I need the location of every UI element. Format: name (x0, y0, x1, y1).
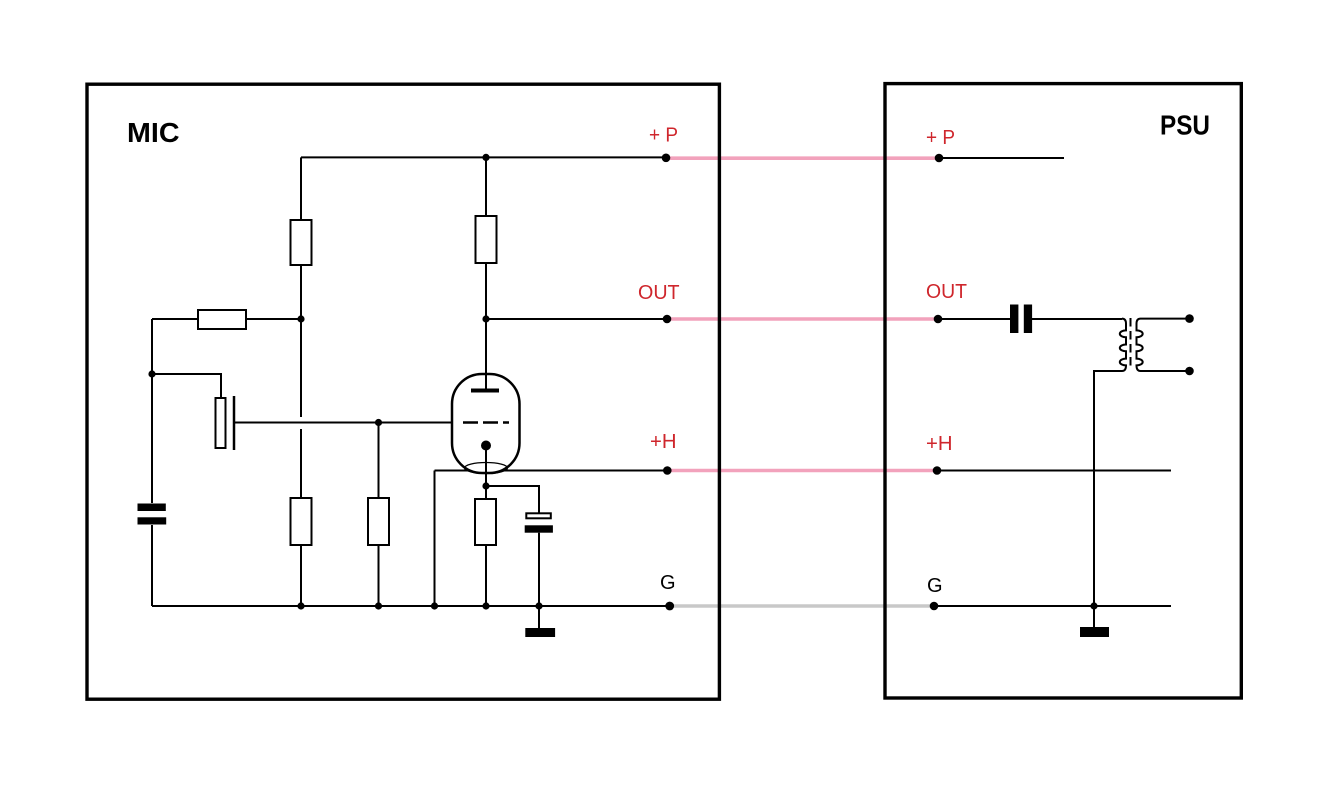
wire top rail y=157 (301, 156, 666, 158)
wire R3 right to node A (246, 318, 301, 320)
resistor R6 (cathode) (475, 499, 496, 545)
terminal G MIC (665, 602, 674, 611)
svg-text:OUT: OUT (926, 281, 967, 303)
node G5 junction dot (538,606) (535, 602, 542, 609)
node G2 junction dot (378.5,606) (375, 602, 382, 609)
capacitor C2 right plate (1024, 305, 1032, 334)
transformer T1 secondary winding (1137, 319, 1143, 371)
triode V1 base ellipse (465, 463, 508, 474)
wire +P stub PSU (939, 157, 1064, 159)
wire heater +H rail (435, 470, 668, 472)
resistor R3 (horizontal grid resistor) (198, 310, 246, 329)
wire left corner to R3 (152, 318, 198, 320)
terminal +P PSU (935, 154, 944, 163)
svg-text:MIC: MIC (127, 117, 180, 148)
capacitor C3 negative plate (525, 525, 553, 532)
wire secondary bottom (1141, 370, 1190, 372)
terminal +P MIC (662, 154, 671, 163)
node C junction dot (378.5,422.5) (375, 419, 382, 426)
node E junction dot (486,319) (482, 315, 489, 322)
capsule K1 movable plate (hollow) (216, 398, 226, 448)
wire G link (gray) MIC to PSU (670, 604, 932, 608)
node G1 junction dot (301,606) (297, 602, 304, 609)
wire R5 bottom to ground rail (378, 545, 380, 606)
wire +H rail PSU (937, 470, 1171, 472)
node secondary top dot (1185, 314, 1194, 323)
transformer T1 primary winding (1120, 319, 1126, 371)
wire R2 bottom to OUT node (485, 263, 487, 319)
svg-text:+ P: + P (926, 127, 955, 149)
wire cathode lead (485, 446, 487, 487)
wire C3 to ground rail (538, 533, 540, 606)
wire grid line from capsule to tube (235, 422, 452, 424)
capacitor C1 bottom plate (138, 517, 167, 524)
terminal +H MIC (663, 466, 672, 475)
triode V1 cathode dot (481, 441, 491, 451)
triode V1 anode bar (471, 389, 499, 393)
terminal +H PSU (933, 466, 942, 475)
wire node B to capsule top (152, 374, 221, 398)
triode V1 grid (dashed) (463, 421, 509, 424)
wire continues below gap to R4 (300, 429, 302, 499)
wire R4 bottom to ground rail (300, 545, 302, 606)
wire +P link (pink) MIC to PSU (670, 156, 937, 160)
svg-text:OUT: OUT (638, 282, 680, 304)
wire C1 bottom to ground rail (151, 525, 153, 606)
wire ground rail MIC (152, 605, 669, 607)
resistor R5 (grid leak) (368, 498, 389, 545)
MIC enclosure box (87, 84, 719, 699)
wire from top rail down to R1 (300, 157, 302, 221)
capacitor C2 left plate (1010, 305, 1018, 334)
ground symbol MIC (538, 606, 540, 628)
capsule K1 back plate (233, 396, 236, 450)
wire OUT link (pink) MIC to PSU (670, 317, 936, 321)
node G4 junction dot (486,606) (482, 602, 489, 609)
wire cathode node to C3 (486, 486, 539, 513)
wire heater return column (434, 471, 436, 607)
node A junction dot (301,319) (297, 315, 304, 322)
ground symbol PSU (1093, 606, 1095, 627)
wire secondary top (1141, 318, 1190, 320)
wire primary bottom to ground column (1094, 371, 1122, 606)
resistor R4 (lower, on node A column) (291, 498, 312, 545)
node B junction dot (152,374) (148, 370, 155, 377)
node secondary bottom dot (1185, 367, 1194, 376)
wire cathode node to R6 (485, 486, 487, 499)
PSU enclosure box (885, 84, 1241, 698)
terminal G PSU (930, 602, 939, 611)
node D junction dot (486,157) (482, 154, 489, 161)
svg-text:PSU: PSU (1160, 110, 1210, 141)
wire node A down to R4 (with hop gap at grid wire) (300, 319, 302, 417)
capacitor C1 top plate (138, 504, 166, 512)
wire left column down to capacitor C1 (151, 319, 153, 503)
wire top rail down to R2 (485, 157, 487, 217)
node F junction dot (486,486) cathode node (482, 482, 489, 489)
wire OUT to C2 (938, 318, 1010, 320)
node G3 junction dot (434.5,606) (431, 602, 438, 609)
wire OUT rail (486, 318, 667, 320)
svg-text:G: G (927, 575, 943, 597)
wire anode lead into tube (485, 319, 487, 390)
terminal OUT MIC (663, 315, 672, 324)
node H junction dot (1094,606) (1090, 602, 1097, 609)
terminal OUT PSU (934, 315, 943, 324)
wire C2 to transformer T1 (1032, 318, 1122, 320)
transformer T1 core (dashed) (1130, 318, 1132, 370)
resistor R1 (upper left vertical) (291, 220, 312, 265)
wire R6 bottom to ground rail (485, 545, 487, 606)
capacitor C3 positive plate (hollow) (526, 513, 551, 518)
svg-text:G: G (660, 572, 676, 594)
resistor R2 (anode load) (476, 216, 497, 263)
svg-text:+H: +H (926, 433, 953, 455)
wire G rail PSU (934, 605, 1171, 607)
wire +H link (pink) MIC to PSU (670, 469, 935, 473)
svg-text:+H: +H (650, 431, 677, 453)
triode V1 envelope (452, 374, 520, 473)
svg-text:+ P: + P (649, 125, 678, 147)
wire node C down to R5 (378, 423, 380, 500)
wire R1 bottom to node A (300, 265, 302, 319)
